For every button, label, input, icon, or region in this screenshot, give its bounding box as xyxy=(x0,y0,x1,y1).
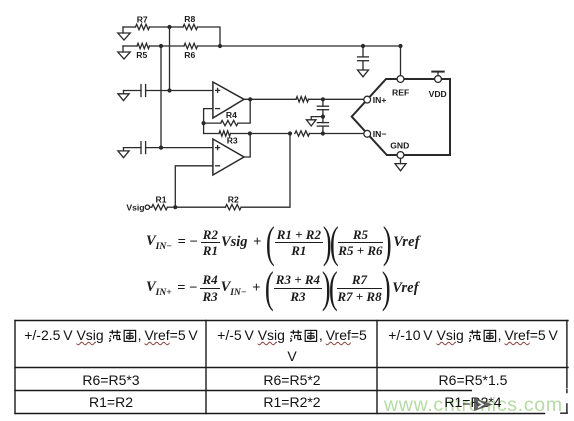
node IN- node xyxy=(321,131,325,135)
svg-text:R4: R4 xyxy=(226,110,237,120)
wire xyxy=(204,133,219,135)
wire xyxy=(241,134,290,208)
terminal Vsig xyxy=(126,202,149,212)
resistor xyxy=(296,97,308,102)
ground G6 xyxy=(358,70,369,77)
wire xyxy=(400,46,402,76)
svg-text:GND: GND xyxy=(390,140,409,150)
resistor R1 xyxy=(152,194,168,210)
table cell R1=R2 xyxy=(16,394,206,411)
table header cell 2 xyxy=(207,325,377,366)
node bus A to U1+ xyxy=(167,88,171,92)
svg-text:REF: REF xyxy=(392,88,409,98)
node REF corner xyxy=(398,44,402,48)
node C (R5/R6) xyxy=(159,44,163,48)
wire xyxy=(204,122,221,124)
wire xyxy=(198,27,221,46)
wire xyxy=(146,90,213,92)
node U1 feedback xyxy=(202,121,206,125)
pin IN+ xyxy=(364,95,387,105)
svg-text:IN+: IN+ xyxy=(373,95,387,105)
svg-text:R5: R5 xyxy=(136,50,147,60)
table borders xyxy=(15,321,568,414)
wire xyxy=(124,147,142,149)
node IN+ node xyxy=(321,97,325,101)
svg-text:R8: R8 xyxy=(184,14,195,24)
node R1/R2 xyxy=(173,205,177,209)
capacitor C5 xyxy=(358,46,369,70)
wire xyxy=(310,133,364,135)
ground G2 xyxy=(118,46,130,59)
svg-text:R7: R7 xyxy=(137,15,148,25)
svg-text:R2: R2 xyxy=(228,194,239,204)
ADC U3 body xyxy=(352,79,450,155)
node bus C to U2+ xyxy=(159,146,163,150)
pin IN- xyxy=(364,129,387,139)
wire xyxy=(146,147,213,149)
wire xyxy=(150,26,170,28)
wire xyxy=(244,98,296,100)
table cell R6=R5*3 xyxy=(16,372,206,389)
resistor R8 xyxy=(183,14,198,30)
table header cell 1 xyxy=(16,325,206,346)
watermark www.cntronics.com xyxy=(384,394,563,417)
wire xyxy=(203,123,205,133)
op-amp U2 xyxy=(213,139,244,175)
capacitor C4 xyxy=(141,142,146,154)
svg-text:IN−: IN− xyxy=(373,129,387,139)
svg-text:R1: R1 xyxy=(156,194,167,204)
power VDD xyxy=(432,72,443,76)
wire xyxy=(238,99,250,123)
capacitor C1 xyxy=(141,85,146,97)
node cap midpoint xyxy=(321,115,325,119)
pin VDD xyxy=(429,76,447,99)
node U2 output xyxy=(248,131,252,135)
wire xyxy=(123,45,137,47)
capacitor C3 xyxy=(317,117,328,134)
ground G1 xyxy=(118,27,130,40)
wire xyxy=(167,206,175,208)
pin GND xyxy=(390,140,409,158)
table cell R6=R5*2 xyxy=(207,372,377,389)
capacitor C2 xyxy=(317,99,328,116)
node REF cap xyxy=(361,44,365,48)
wire xyxy=(309,98,364,100)
resistor R4 xyxy=(221,110,238,126)
svg-text:R6: R6 xyxy=(184,50,195,60)
resistor R5 xyxy=(136,43,149,60)
wire xyxy=(204,109,213,124)
table cell R1=R2*2 xyxy=(207,394,377,411)
resistor R6 xyxy=(184,43,197,60)
wire xyxy=(161,45,184,47)
resistor R3 xyxy=(219,131,238,146)
watermark arrow logo xyxy=(473,397,495,412)
svg-text:R3: R3 xyxy=(227,136,238,146)
wire xyxy=(169,27,171,91)
resistor R7 xyxy=(136,15,150,30)
wire xyxy=(170,26,184,28)
wire xyxy=(198,45,221,47)
node A (R7/R8) xyxy=(167,25,171,29)
equation V_IN- xyxy=(146,224,420,261)
wire xyxy=(124,90,142,92)
node U1 output xyxy=(248,97,252,101)
resistor R2 xyxy=(225,194,241,210)
node B xyxy=(218,44,222,48)
svg-text:VDD: VDD xyxy=(429,89,447,99)
table header cell 3 xyxy=(378,325,568,346)
wire xyxy=(150,206,152,208)
wire xyxy=(311,117,323,120)
op-amp U1 xyxy=(213,82,244,118)
wire xyxy=(123,26,136,28)
ground G7 xyxy=(395,158,406,170)
wire xyxy=(175,166,213,207)
equation V_IN+ xyxy=(146,270,419,307)
ground G5 xyxy=(118,148,129,158)
wire xyxy=(250,133,290,135)
table cell R6=R5*1.5 xyxy=(378,372,568,389)
pin REF xyxy=(392,76,409,98)
resistor xyxy=(295,131,310,136)
svg-text:Vsig: Vsig xyxy=(126,202,144,212)
ground G3 xyxy=(118,91,129,101)
wire xyxy=(150,45,162,47)
wire xyxy=(220,45,401,47)
table cell R1=R2*4 xyxy=(378,394,568,411)
wire xyxy=(160,46,162,148)
ground G4 xyxy=(306,120,316,126)
wire xyxy=(244,134,250,158)
wire xyxy=(231,133,250,135)
wire xyxy=(175,206,225,208)
node R2 tap xyxy=(288,131,292,135)
